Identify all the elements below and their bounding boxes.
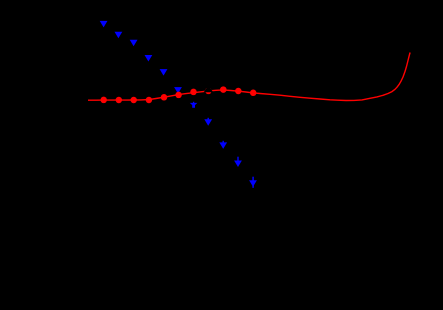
red circle marker 7 bbox=[190, 89, 197, 96]
red circle marker 5 bbox=[161, 94, 168, 101]
blue triangle marker 3 bbox=[130, 40, 138, 47]
blue triangle marker 9 bbox=[219, 142, 227, 149]
black up-triangle marker overlapping red circle marker 8 bbox=[204, 86, 214, 93]
red circle marker 10 bbox=[235, 88, 242, 95]
blue error bar at point 8 bbox=[207, 118, 209, 121]
blue triangle marker 2 bbox=[115, 32, 123, 39]
blue triangle marker 11 bbox=[249, 180, 257, 187]
blue error bar at point 9 bbox=[222, 141, 224, 144]
red circle marker 9 bbox=[220, 86, 227, 93]
red circle marker 2 bbox=[116, 97, 123, 104]
red circle marker 1 bbox=[100, 97, 107, 104]
blue error bar at point 10 bbox=[237, 157, 239, 162]
blue triangle marker 1 bbox=[100, 21, 108, 28]
blue triangle marker 10 bbox=[234, 161, 242, 168]
blue triangle marker 7 (tip merged with thick error bar) bbox=[190, 103, 198, 108]
red theory curve bbox=[88, 53, 410, 101]
red circle marker 3 bbox=[130, 97, 137, 104]
blue triangle marker 5 bbox=[160, 69, 168, 76]
blue error bar at point 11 bbox=[252, 177, 254, 188]
blue triangle marker 4 bbox=[145, 55, 153, 62]
red circle marker 11 bbox=[250, 90, 257, 97]
blue error bar at point 7 bbox=[193, 102, 195, 105]
red circle marker 4 bbox=[146, 97, 153, 104]
red circle marker 8 bbox=[205, 88, 212, 95]
blue triangle marker 8 bbox=[204, 119, 212, 126]
red circle marker 6 bbox=[175, 92, 182, 99]
blue triangle marker 6 bbox=[174, 87, 182, 94]
